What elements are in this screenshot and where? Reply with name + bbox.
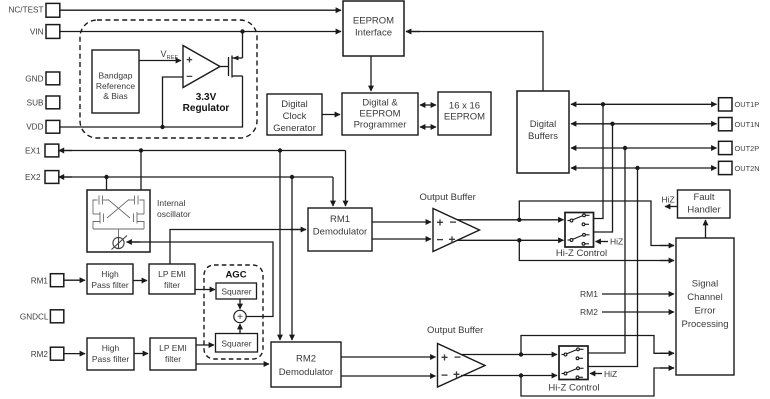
svg-text:Bandgap: Bandgap xyxy=(98,71,132,81)
svg-text:RM2: RM2 xyxy=(580,307,598,317)
svg-text:−: − xyxy=(441,368,448,382)
svg-text:OUT2N: OUT2N xyxy=(735,164,760,173)
wire RM1 demod out N xyxy=(372,238,431,240)
svg-text:HiZ: HiZ xyxy=(604,369,617,379)
wire HiZ output stub xyxy=(665,206,678,208)
regulator dashed enclosure xyxy=(80,20,257,138)
16x16 EEPROM block xyxy=(438,92,491,135)
wire programmer-eeprom bus lower xyxy=(420,126,436,128)
wire HiZ stub 1 xyxy=(596,241,609,243)
svg-text:EX2: EX2 xyxy=(25,173,41,182)
wire Digital Buffers to EEPROM Interface xyxy=(406,32,543,92)
wire squarer1 to adder xyxy=(239,299,241,309)
wire LPEMI1 to squarer1 xyxy=(195,289,215,291)
wire clock to programmer xyxy=(322,114,340,116)
LP EMI filter 1 block xyxy=(149,264,195,294)
svg-text:EEPROM: EEPROM xyxy=(353,16,394,27)
svg-text:RM2: RM2 xyxy=(296,354,316,365)
wire switch2 outB to OUT2N xyxy=(588,168,638,367)
switch glyph 2a xyxy=(562,348,584,360)
Fault Handler block xyxy=(678,190,731,218)
wire switch1 outA to OUT1P xyxy=(594,104,604,218)
squarer 2 block xyxy=(216,334,258,353)
svg-text:RM1: RM1 xyxy=(330,214,350,225)
pin OUT2P xyxy=(719,141,733,154)
pin GNDCL xyxy=(50,310,63,323)
node EX1-RM2 xyxy=(278,148,282,152)
node OUT1N xyxy=(610,122,614,126)
wire VIN to EEPROM Interface xyxy=(60,31,341,33)
svg-text:filter: filter xyxy=(165,354,181,364)
svg-text:Squarer: Squarer xyxy=(221,287,251,297)
wire programmer-eeprom bus upper xyxy=(420,104,436,106)
wire RM1 to High Pass filter xyxy=(64,279,85,281)
svg-text:High: High xyxy=(101,269,119,279)
bandgap block xyxy=(92,50,139,113)
wire buffer1 N to signal processing xyxy=(519,240,674,260)
wire squarer2 to adder xyxy=(239,324,241,334)
node feedback-VDD junction xyxy=(160,125,164,129)
wire SCEP to fault handler xyxy=(705,220,707,238)
pin EX1 xyxy=(45,144,59,157)
svg-text:16 x 16: 16 x 16 xyxy=(449,101,480,112)
Signal Channel Error Processing block xyxy=(676,238,734,375)
svg-text:Clock: Clock xyxy=(283,111,307,122)
node OUT1P xyxy=(601,102,605,106)
svg-text:+: + xyxy=(436,216,443,230)
wire op-amp inverting input feedback xyxy=(163,76,243,127)
wire EX2 to RM2 demodulator xyxy=(291,177,293,326)
wire buffer1 P to signal processing xyxy=(519,201,674,246)
svg-text:oscillator: oscillator xyxy=(157,209,191,219)
node EX2-osc xyxy=(104,175,108,179)
squarer 1 block xyxy=(216,283,257,299)
wire HiZ stub 2 xyxy=(590,373,602,375)
wire buffer2 P to signal processing xyxy=(521,336,674,355)
svg-text:Internal: Internal xyxy=(157,198,185,208)
svg-text:+: + xyxy=(441,351,448,365)
node VIN tap xyxy=(240,29,244,33)
wire RM1 demod out P xyxy=(372,221,431,223)
internal oscillator block xyxy=(87,190,150,252)
pin EX2 xyxy=(45,171,59,184)
svg-text:Processing: Processing xyxy=(682,319,729,330)
wire OUT2N row xyxy=(571,167,717,169)
pin VDD xyxy=(46,120,60,133)
Digital and EEPROM Programmer block xyxy=(342,93,418,135)
pin VIN xyxy=(46,25,60,39)
svg-text:RM1: RM1 xyxy=(31,276,49,285)
transistor Q1 pass PMOS xyxy=(220,32,243,78)
wire OUT1P row xyxy=(571,103,717,105)
svg-text:Error: Error xyxy=(694,306,715,317)
wire EX1 net xyxy=(59,150,346,152)
wire RM2 demod out P xyxy=(341,356,436,358)
svg-text:Hi-Z Control: Hi-Z Control xyxy=(556,248,607,259)
node OUT2N xyxy=(635,166,639,170)
op-amp output buffer 1 xyxy=(433,209,480,252)
wire buffer1 out N xyxy=(457,239,564,241)
wire EX2 to RM1 demodulator xyxy=(332,177,334,192)
wire EX2 net xyxy=(59,176,333,178)
svg-text:Output Buffer: Output Buffer xyxy=(420,192,476,203)
RM2 Demodulator block xyxy=(271,342,341,387)
svg-text:3.3V: 3.3V xyxy=(196,92,217,103)
wire switch1 outB to OUT1N xyxy=(594,124,613,232)
RM1 Demodulator block xyxy=(308,208,372,251)
wire HP2 to LPEMI2 xyxy=(134,353,148,355)
svg-text:RM2: RM2 xyxy=(31,350,49,359)
wire switch2 outA to OUT2P xyxy=(588,148,625,353)
svg-text:+: + xyxy=(237,312,243,323)
wire buffer1 out P xyxy=(457,219,564,221)
svg-text:SUB: SUB xyxy=(27,98,44,107)
pin RM2 xyxy=(50,347,63,360)
svg-text:Buffers: Buffers xyxy=(528,131,558,142)
svg-text:Channel: Channel xyxy=(687,292,722,303)
svg-text:Pass filter: Pass filter xyxy=(91,280,128,290)
wire EX1 to oscillator xyxy=(140,151,142,191)
svg-text:OUT1N: OUT1N xyxy=(735,120,760,129)
wire AGC output to oscillator xyxy=(128,242,273,317)
wire HP1 to LPEMI1 xyxy=(133,280,147,282)
svg-text:GND: GND xyxy=(25,74,43,83)
switch glyph 2b xyxy=(562,367,584,379)
wire VDD to regulator feedback node xyxy=(60,126,163,128)
svg-text:RM1: RM1 xyxy=(580,289,598,299)
svg-text:Signal: Signal xyxy=(692,279,718,290)
svg-text:Interface: Interface xyxy=(355,28,392,39)
pin NC/TEST xyxy=(46,3,60,17)
svg-text:HiZ: HiZ xyxy=(610,237,623,247)
pin OUT2N xyxy=(719,161,733,174)
wire EX2 to oscillator xyxy=(106,177,108,190)
svg-text:−: − xyxy=(186,71,192,83)
svg-text:OUT1P: OUT1P xyxy=(735,100,760,109)
svg-text:+: + xyxy=(186,55,192,67)
svg-text:& Bias: & Bias xyxy=(103,91,128,101)
wire RM2 stub xyxy=(602,311,674,313)
svg-text:VDD: VDD xyxy=(26,123,43,132)
svg-text:Fault: Fault xyxy=(693,192,714,203)
oscillator internals xyxy=(93,196,144,238)
pin OUT1P xyxy=(719,98,733,111)
svg-text:AGC: AGC xyxy=(225,270,246,281)
wire VREF bandgap to op-amp xyxy=(139,60,181,62)
svg-text:Digital: Digital xyxy=(530,119,556,130)
svg-text:HiZ: HiZ xyxy=(662,195,675,205)
svg-text:Demodulator: Demodulator xyxy=(279,367,333,378)
wire buffer2 out P xyxy=(462,354,557,356)
switch glyph 1a xyxy=(568,214,590,226)
svg-text:−: − xyxy=(449,215,456,229)
svg-text:filter: filter xyxy=(164,280,180,290)
svg-text:Handler: Handler xyxy=(687,205,720,216)
Digital Buffers block xyxy=(517,91,569,173)
wire buffer2 N to signal processing xyxy=(521,368,674,396)
svg-text:VREF: VREF xyxy=(161,49,179,61)
node EX1-osc xyxy=(139,148,143,152)
svg-text:Generator: Generator xyxy=(273,123,316,134)
svg-text:EEPROM: EEPROM xyxy=(444,112,485,123)
op-amp output buffer 2 xyxy=(438,344,486,388)
node OUT2P xyxy=(623,146,627,150)
wire EX1 to RM2 demodulator xyxy=(279,151,281,327)
wire OUT2P row xyxy=(571,147,717,149)
pin GND xyxy=(46,72,60,85)
svg-text:Demodulator: Demodulator xyxy=(313,227,367,238)
wire LPEMI2 to RM2 demodulator xyxy=(196,363,269,365)
wire RM1 stub xyxy=(602,293,674,295)
LP EMI filter 2 block xyxy=(150,338,196,370)
High Pass filter 2 block xyxy=(87,338,134,370)
oscillator current source xyxy=(112,236,128,250)
svg-text:Digital: Digital xyxy=(281,99,307,110)
High Pass filter 1 block xyxy=(87,264,133,294)
svg-text:Reference: Reference xyxy=(96,81,135,91)
op-amp U1 3.3V regulator xyxy=(183,46,220,88)
svg-text:VIN: VIN xyxy=(30,27,44,36)
Digital Clock Generator block xyxy=(267,94,322,135)
node buffer2 N xyxy=(519,373,523,377)
svg-text:Regulator: Regulator xyxy=(183,103,230,114)
svg-text:+: + xyxy=(453,368,460,382)
svg-text:−: − xyxy=(436,233,443,247)
svg-text:−: − xyxy=(454,350,461,364)
svg-text:EX1: EX1 xyxy=(25,146,41,155)
node EX2-RM2 xyxy=(290,175,294,179)
Hi-Z control switch box 1 xyxy=(565,213,594,248)
switch glyph 1b xyxy=(568,233,590,245)
pin SUB xyxy=(46,96,60,109)
buffer polarity marks xyxy=(436,215,461,382)
node buffer2 P xyxy=(519,352,523,356)
wire RM2 demod out N xyxy=(341,375,436,377)
svg-text:Squarer: Squarer xyxy=(221,339,251,349)
svg-text:LP EMI: LP EMI xyxy=(158,269,186,279)
wire LPEMI1 to RM1 demodulator xyxy=(170,230,306,265)
Hi-Z control switch box 2 xyxy=(559,346,588,380)
svg-text:Hi-Z Control: Hi-Z Control xyxy=(548,383,599,394)
svg-text:GNDCL: GNDCL xyxy=(20,313,49,322)
node buffer1 N xyxy=(517,238,521,242)
svg-text:Programmer: Programmer xyxy=(354,120,407,131)
svg-text:OUT2P: OUT2P xyxy=(735,144,760,153)
svg-text:Pass filter: Pass filter xyxy=(92,354,129,364)
wire EX1 to RM1 demodulator xyxy=(345,151,347,193)
wire RM2 to High Pass filter xyxy=(64,353,85,355)
svg-text:EEPROM: EEPROM xyxy=(359,109,400,120)
wire EEPROM Interface to programmer xyxy=(370,56,372,91)
wire buffer2 out N xyxy=(461,375,557,377)
svg-text:+: + xyxy=(448,233,455,247)
pin RM1 xyxy=(50,274,63,287)
svg-text:Digital &: Digital & xyxy=(362,98,398,109)
pin OUT1N xyxy=(719,118,733,131)
svg-text:High: High xyxy=(102,343,120,353)
wire LPEMI2 to squarer2 xyxy=(196,344,214,346)
svg-text:LP EMI: LP EMI xyxy=(159,343,187,353)
svg-text:Output Buffer: Output Buffer xyxy=(427,325,483,336)
node buffer1 P xyxy=(517,218,521,222)
adder node xyxy=(234,310,246,322)
EEPROM Interface block xyxy=(343,1,404,56)
svg-text:NC/TEST: NC/TEST xyxy=(8,6,43,15)
wire NC/TEST to EEPROM Interface xyxy=(60,9,341,11)
AGC dashed enclosure xyxy=(204,265,263,359)
wire OUT1N row xyxy=(571,123,717,125)
